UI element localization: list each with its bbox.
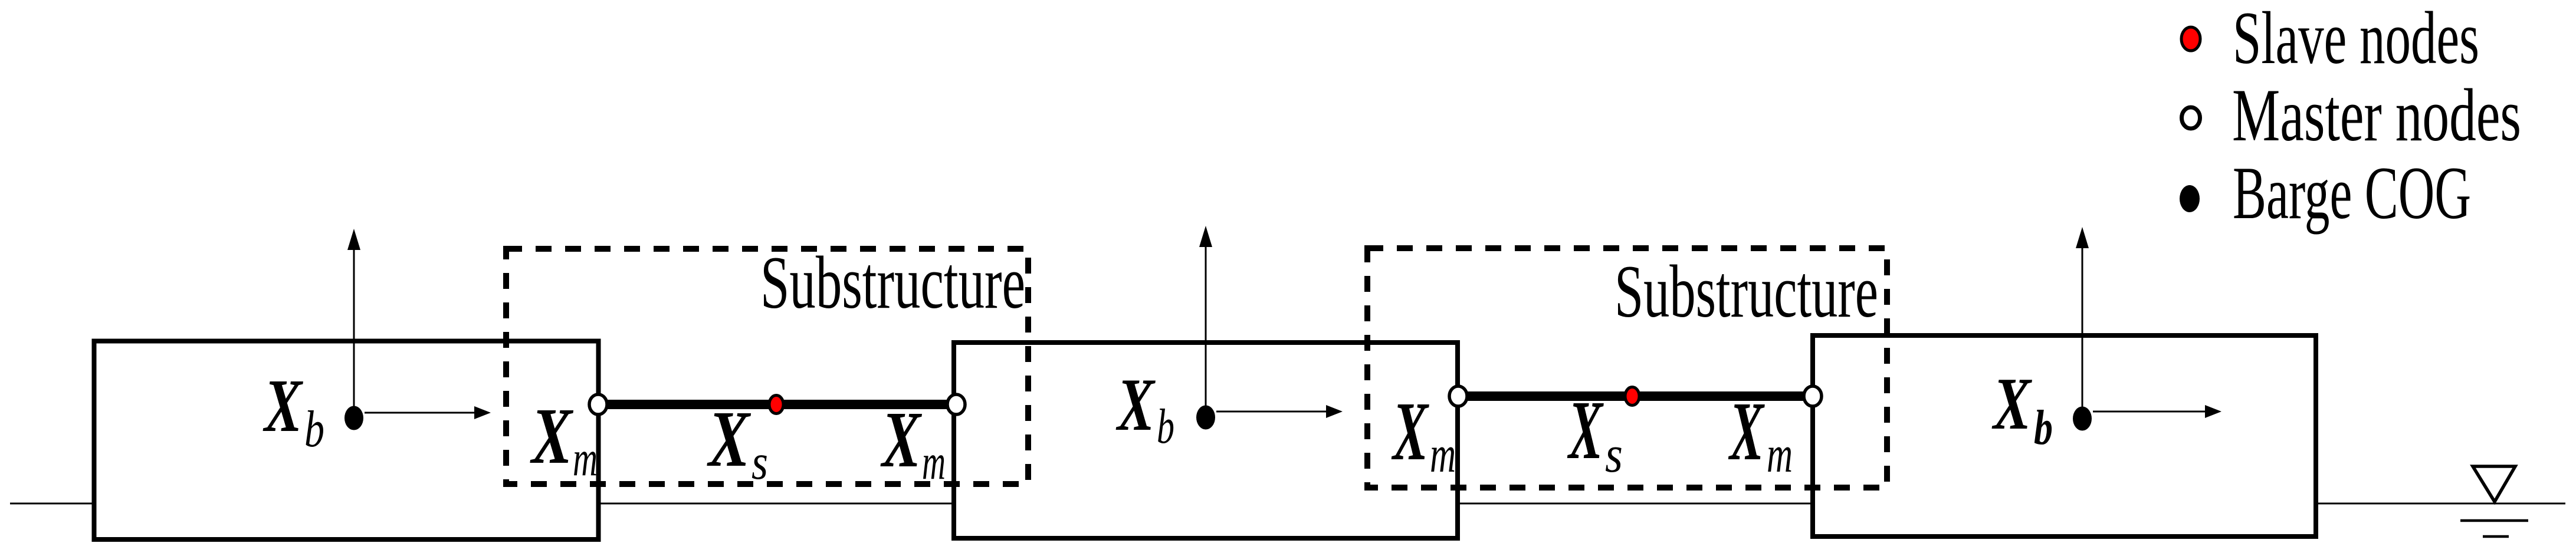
legend barge COG marker: [2180, 185, 2200, 212]
wire link 2 (thick connector between barge 2 and barge 3): [1458, 391, 1813, 401]
waterline between barge1 and barge2: [599, 503, 953, 505]
barge 2 axis horizontal arrow: [1216, 411, 1327, 413]
svg-text:X: X: [880, 396, 922, 484]
svg-text:m: m: [1430, 426, 1456, 483]
waterline between barge2 and barge3: [1458, 503, 1812, 505]
svg-text:X: X: [1567, 383, 1604, 476]
svg-text:m: m: [573, 431, 598, 486]
master node circle link2 left: [1449, 386, 1467, 406]
slave node red dot link2: [1625, 387, 1639, 406]
svg-text:b: b: [1157, 399, 1174, 454]
barge 1 axis vertical arrow: [353, 250, 355, 418]
barge 2 (middle rectangle): [954, 343, 1458, 538]
barge 2 axis vertical arrow: [1205, 247, 1207, 417]
barge 1 (left rectangle): [94, 341, 599, 540]
svg-text:X: X: [1115, 364, 1156, 446]
substructure box 2 (dashed): [1367, 248, 1887, 488]
svg-text:b: b: [304, 401, 324, 458]
barge 3 axis vertical arrow: [2082, 248, 2083, 419]
svg-text:Substructure: Substructure: [760, 242, 1025, 324]
svg-text:b: b: [2034, 400, 2053, 455]
svg-text:Barge COG: Barge COG: [2233, 152, 2471, 235]
water surface symbol (nabla triangle): [2473, 466, 2515, 502]
waterline left segment: [10, 503, 92, 505]
svg-text:s: s: [1605, 426, 1623, 483]
barge 3 (right rectangle): [1813, 335, 2316, 536]
barge 1 COG dot: [344, 406, 363, 430]
water symbol underline 2: [2483, 535, 2509, 538]
barge 1 axis horizontal arrow: [365, 412, 475, 414]
svg-text:Master nodes: Master nodes: [2232, 74, 2521, 157]
waterline right segment: [2317, 503, 2565, 505]
svg-text:X: X: [262, 364, 303, 447]
svg-text:s: s: [752, 434, 768, 490]
svg-text:Substructure: Substructure: [1614, 251, 1878, 333]
svg-text:X: X: [530, 392, 574, 480]
barge 3 axis horizontal arrow: [2093, 411, 2206, 413]
legend master node marker: [2182, 107, 2200, 129]
svg-text:m: m: [922, 434, 946, 490]
barge 3 COG dot: [2073, 407, 2092, 431]
master node circle link1 right: [947, 394, 965, 414]
svg-text:X: X: [1728, 384, 1765, 478]
wire link 1 (thick connector between barge 1 and barge 2): [598, 400, 956, 409]
svg-text:m: m: [1767, 426, 1793, 483]
svg-text:Slave nodes: Slave nodes: [2233, 0, 2479, 80]
legend slave node marker: [2181, 27, 2200, 51]
substructure box 1 (dashed): [506, 249, 1028, 484]
svg-text:X: X: [707, 395, 752, 483]
svg-text:X: X: [1391, 384, 1429, 478]
master node circle link1 left: [589, 394, 607, 414]
slave node red dot link1: [769, 396, 783, 414]
barge 2 COG dot: [1196, 406, 1215, 430]
master node circle link2 right: [1804, 386, 1822, 406]
svg-text:X: X: [1991, 363, 2032, 445]
water symbol underline 1: [2460, 519, 2528, 522]
